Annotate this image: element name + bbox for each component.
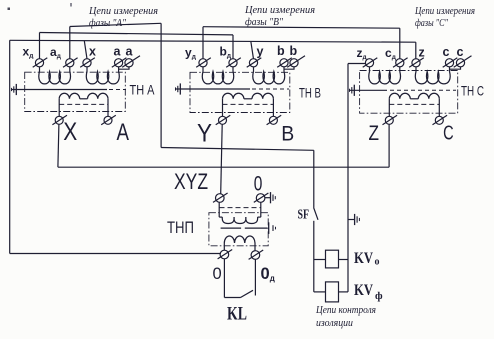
svg-text:x: x (89, 45, 96, 59)
svg-text:a: a (126, 45, 134, 59)
svg-text:z: z (419, 46, 425, 60)
svg-text:фазы "С": фазы "С" (415, 17, 448, 29)
svg-text:o: o (375, 257, 380, 268)
svg-text:Цепи измерения: Цепи измерения (414, 5, 475, 17)
svg-text:SF: SF (298, 207, 310, 222)
svg-text:KL: KL (227, 305, 247, 325)
svg-text:A: A (117, 119, 130, 146)
svg-text:Цепи измерения: Цепи измерения (88, 5, 158, 17)
svg-text:c: c (457, 45, 464, 59)
svg-text:XYZ: XYZ (174, 169, 208, 194)
svg-text:ТНП: ТНП (167, 218, 194, 237)
svg-text:изоляции: изоляции (316, 317, 353, 329)
svg-text:фазы "В": фазы "В" (245, 16, 283, 28)
svg-text:ТН С: ТН С (461, 83, 484, 99)
svg-text:X: X (63, 118, 77, 146)
svg-text:ф: ф (375, 290, 383, 302)
svg-text:C: C (443, 122, 454, 144)
svg-text:b: b (290, 44, 298, 58)
svg-text:KV: KV (354, 282, 373, 299)
svg-text:b: b (277, 44, 285, 58)
svg-text:B: B (281, 122, 294, 145)
svg-text:KV: KV (354, 250, 373, 267)
svg-text:c: c (443, 45, 450, 59)
svg-text:Цепи контроля: Цепи контроля (315, 304, 376, 316)
svg-text:y: y (257, 45, 264, 59)
svg-text:0: 0 (213, 265, 222, 283)
svg-text:фазы "А": фазы "А" (89, 17, 126, 29)
svg-text:0: 0 (254, 172, 263, 196)
svg-text:ТН В: ТН В (299, 85, 321, 101)
svg-text:Цепи измерения: Цепи измерения (244, 4, 315, 16)
svg-text:ТН А: ТН А (130, 81, 156, 97)
svg-text:Y: Y (197, 119, 212, 147)
svg-text:Z: Z (369, 122, 380, 145)
svg-text:a: a (114, 45, 122, 59)
